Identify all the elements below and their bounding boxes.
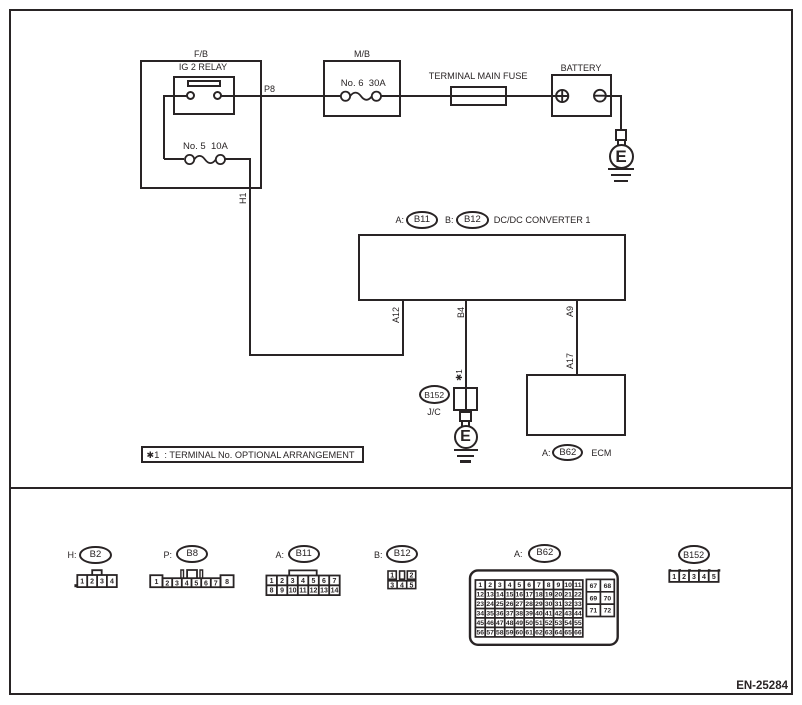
fuse No.5 symbol — [184, 154, 226, 165]
connector ellipse B152 (J/C) — [419, 385, 450, 404]
svg-text:29: 29 — [535, 601, 543, 608]
svg-text:62: 62 — [535, 630, 543, 637]
joint connector J/C box — [453, 387, 479, 411]
J/C lower connector square — [459, 411, 472, 422]
connector ellipse B152 pinout label — [678, 545, 710, 565]
svg-text:20: 20 — [555, 592, 563, 599]
svg-text:1: 1 — [154, 579, 158, 586]
svg-text:34: 34 — [477, 611, 485, 618]
battery box — [551, 74, 613, 117]
svg-text:4: 4 — [110, 579, 114, 586]
wire fuse5 right lead — [224, 158, 251, 160]
label A: (B11) — [276, 550, 285, 560]
svg-text:57: 57 — [486, 630, 494, 637]
svg-text:60: 60 — [516, 630, 524, 637]
connector B2 pinout — [72, 566, 122, 590]
note box — [141, 446, 364, 463]
wire relay left lead — [164, 95, 187, 97]
BATTERY label — [551, 63, 611, 73]
J/C divider — [465, 387, 467, 411]
svg-text:24: 24 — [486, 601, 494, 608]
svg-text:12: 12 — [310, 588, 318, 595]
label B: (converter) — [445, 215, 454, 225]
wire M/B to battery — [381, 95, 556, 97]
label A9 — [565, 306, 575, 317]
svg-text:3: 3 — [100, 579, 104, 586]
svg-text:66: 66 — [574, 630, 582, 637]
svg-text:6: 6 — [204, 581, 208, 588]
ECM box — [526, 374, 626, 436]
svg-text:40: 40 — [535, 611, 543, 618]
connector ellipse B12 pinout label — [386, 545, 418, 563]
svg-text:37: 37 — [506, 611, 514, 618]
label TERMINAL MAIN FUSE — [429, 71, 528, 81]
battery plus terminal — [555, 89, 570, 104]
junction box M/B — [323, 60, 401, 117]
F/B label — [171, 49, 231, 59]
svg-text:7: 7 — [214, 581, 218, 588]
connector B8 pinout — [148, 566, 238, 590]
svg-text:17: 17 — [525, 592, 533, 599]
connector ellipse B11 — [406, 211, 438, 229]
label *1 — [454, 369, 464, 381]
svg-text:46: 46 — [486, 620, 494, 627]
svg-text:54: 54 — [564, 620, 572, 627]
svg-text:5: 5 — [517, 582, 521, 589]
svg-text:9: 9 — [557, 582, 561, 589]
battery ground bar 1 — [608, 168, 634, 170]
label A: (ECM) — [542, 448, 551, 458]
label P: — [164, 550, 173, 560]
wire left vertical — [163, 95, 165, 160]
svg-text:52: 52 — [545, 620, 553, 627]
svg-text:2: 2 — [682, 574, 686, 581]
label B: (B12) — [374, 550, 383, 560]
DC/DC converter box — [358, 234, 626, 302]
svg-text:5: 5 — [312, 578, 316, 585]
svg-text:39: 39 — [525, 611, 533, 618]
svg-text:3: 3 — [498, 582, 502, 589]
wire A9 vertical — [576, 301, 578, 375]
svg-text:55: 55 — [574, 620, 582, 627]
svg-text:3: 3 — [291, 578, 295, 585]
svg-text:65: 65 — [564, 630, 572, 637]
svg-text:69: 69 — [590, 595, 598, 602]
svg-text:14: 14 — [331, 588, 339, 595]
label P8 — [264, 84, 275, 94]
relay contact right — [213, 91, 222, 100]
svg-text:6: 6 — [527, 582, 531, 589]
connector ellipse B62 pinout label — [528, 544, 561, 562]
battery ground bar 2 — [611, 174, 631, 176]
label J/C — [414, 407, 454, 417]
svg-text:56: 56 — [477, 630, 485, 637]
svg-text:58: 58 — [496, 630, 504, 637]
svg-text:70: 70 — [604, 595, 612, 602]
svg-text:2: 2 — [410, 573, 414, 580]
svg-text:3: 3 — [175, 581, 179, 588]
connector ellipse B62 (ECM) — [552, 444, 583, 461]
label H1 — [238, 192, 248, 204]
label EN-25284 — [700, 681, 788, 691]
J/C ground bar 2 — [457, 455, 475, 457]
svg-text:42: 42 — [555, 611, 563, 618]
relay IG 2 RELAY label — [171, 62, 235, 72]
svg-text:18: 18 — [535, 592, 543, 599]
wire H1 vertical — [249, 158, 251, 355]
svg-text:8: 8 — [547, 582, 551, 589]
svg-text:33: 33 — [574, 601, 582, 608]
connector B62 pinout — [466, 566, 622, 650]
wire B4 vertical — [465, 301, 467, 387]
note text — [147, 450, 355, 460]
label ECM — [591, 448, 611, 458]
connector ellipse B8 — [176, 545, 208, 563]
svg-text:36: 36 — [496, 611, 504, 618]
svg-text:49: 49 — [516, 620, 524, 627]
svg-text:44: 44 — [574, 611, 582, 618]
svg-text:27: 27 — [516, 601, 524, 608]
battery ground neck — [617, 140, 626, 145]
terminal main fuse box — [450, 86, 507, 106]
svg-text:1: 1 — [672, 574, 676, 581]
relay box — [173, 76, 235, 115]
svg-text:4: 4 — [508, 582, 512, 589]
svg-text:9: 9 — [280, 588, 284, 595]
svg-text:8: 8 — [270, 588, 274, 595]
svg-text:2: 2 — [90, 579, 94, 586]
label A12 — [391, 306, 401, 322]
svg-text:5: 5 — [194, 581, 198, 588]
battery ground connector square — [615, 129, 628, 142]
svg-text:67: 67 — [590, 583, 598, 590]
connector ellipse B2 — [79, 546, 111, 564]
wire battery right lead — [606, 95, 622, 97]
svg-text:11: 11 — [574, 582, 581, 589]
J/C ground neck — [461, 421, 470, 426]
svg-text:7: 7 — [537, 582, 541, 589]
svg-text:1: 1 — [80, 579, 84, 586]
svg-text:30: 30 — [545, 601, 553, 608]
wire main horizontal P8 segment — [221, 95, 342, 97]
svg-text:7: 7 — [333, 578, 337, 585]
wire battery ground vertical — [620, 95, 622, 130]
svg-text:59: 59 — [506, 630, 514, 637]
svg-text:32: 32 — [564, 601, 572, 608]
svg-text:64: 64 — [555, 630, 563, 637]
svg-text:35: 35 — [486, 611, 494, 618]
svg-text:43: 43 — [564, 611, 572, 618]
svg-text:3: 3 — [390, 582, 394, 589]
svg-text:19: 19 — [545, 592, 553, 599]
svg-text:2: 2 — [280, 578, 284, 585]
svg-text:21: 21 — [564, 592, 572, 599]
svg-text:2: 2 — [165, 581, 169, 588]
svg-text:50: 50 — [525, 620, 533, 627]
wire bottom horizontal to A12 — [249, 354, 404, 356]
svg-text:1: 1 — [270, 578, 274, 585]
connector ellipse B12 — [456, 211, 489, 229]
wire A12 vertical — [402, 301, 404, 356]
svg-text:25: 25 — [496, 601, 504, 608]
svg-text:26: 26 — [506, 601, 514, 608]
svg-text:51: 51 — [535, 620, 543, 627]
svg-text:45: 45 — [477, 620, 485, 627]
svg-text:72: 72 — [604, 608, 612, 615]
label A: (converter) — [396, 215, 405, 225]
svg-text:14: 14 — [496, 592, 504, 599]
svg-text:4: 4 — [400, 582, 404, 589]
connector B152 pinout — [666, 566, 722, 586]
J/C ground bar 1 — [454, 449, 478, 451]
M/B label — [332, 49, 392, 59]
svg-text:13: 13 — [486, 592, 494, 599]
connector ellipse B11 pinout label — [288, 545, 320, 563]
svg-text:38: 38 — [516, 611, 524, 618]
svg-text:4: 4 — [702, 574, 706, 581]
label A17 — [565, 353, 575, 369]
label A: (B62) — [514, 549, 523, 559]
label DC/DC CONVERTER 1 — [494, 215, 591, 225]
J/C ground bar 3 — [460, 460, 472, 462]
svg-text:5: 5 — [409, 582, 413, 589]
svg-text:63: 63 — [545, 630, 553, 637]
svg-text:71: 71 — [590, 608, 598, 615]
relay contact left — [186, 91, 195, 100]
fuse box F/B — [140, 60, 262, 189]
svg-text:53: 53 — [555, 620, 563, 627]
svg-text:8: 8 — [225, 579, 229, 586]
separator line — [9, 487, 793, 489]
svg-text:22: 22 — [574, 592, 582, 599]
svg-text:6: 6 — [322, 578, 326, 585]
svg-text:31: 31 — [555, 601, 563, 608]
svg-text:48: 48 — [506, 620, 514, 627]
svg-text:11: 11 — [299, 588, 307, 595]
label H: — [68, 550, 77, 560]
relay coil — [187, 80, 221, 87]
svg-text:10: 10 — [289, 588, 297, 595]
connector B11 pinout — [262, 566, 344, 598]
connector B12 pinout — [385, 566, 421, 594]
svg-text:12: 12 — [477, 592, 485, 599]
J/C ground circle E — [454, 425, 478, 449]
svg-text:41: 41 — [545, 611, 553, 618]
svg-text:68: 68 — [604, 583, 612, 590]
svg-text:10: 10 — [564, 582, 572, 589]
svg-text:15: 15 — [506, 592, 514, 599]
svg-text:4: 4 — [185, 581, 189, 588]
label B4 — [456, 306, 466, 317]
wire fuse5 left lead — [164, 158, 184, 160]
svg-text:5: 5 — [712, 574, 716, 581]
svg-text:3: 3 — [692, 574, 696, 581]
fuse No. 5 10A label — [183, 142, 228, 152]
svg-text:2: 2 — [488, 582, 492, 589]
svg-text:61: 61 — [525, 630, 533, 637]
svg-text:1: 1 — [478, 582, 482, 589]
battery ground circle E — [609, 144, 634, 169]
svg-text:23: 23 — [477, 601, 485, 608]
svg-text:28: 28 — [525, 601, 533, 608]
svg-text:16: 16 — [516, 592, 524, 599]
wire M/B left lead — [323, 95, 341, 97]
battery ground bar 3 — [614, 180, 628, 182]
svg-text:47: 47 — [496, 620, 504, 627]
svg-text:1: 1 — [390, 573, 394, 580]
battery minus terminal — [593, 89, 607, 103]
svg-text:4: 4 — [301, 578, 305, 585]
svg-text:13: 13 — [320, 588, 328, 595]
fuse No. 6 30A label — [341, 79, 386, 89]
fuse No.6 symbol — [340, 91, 382, 102]
